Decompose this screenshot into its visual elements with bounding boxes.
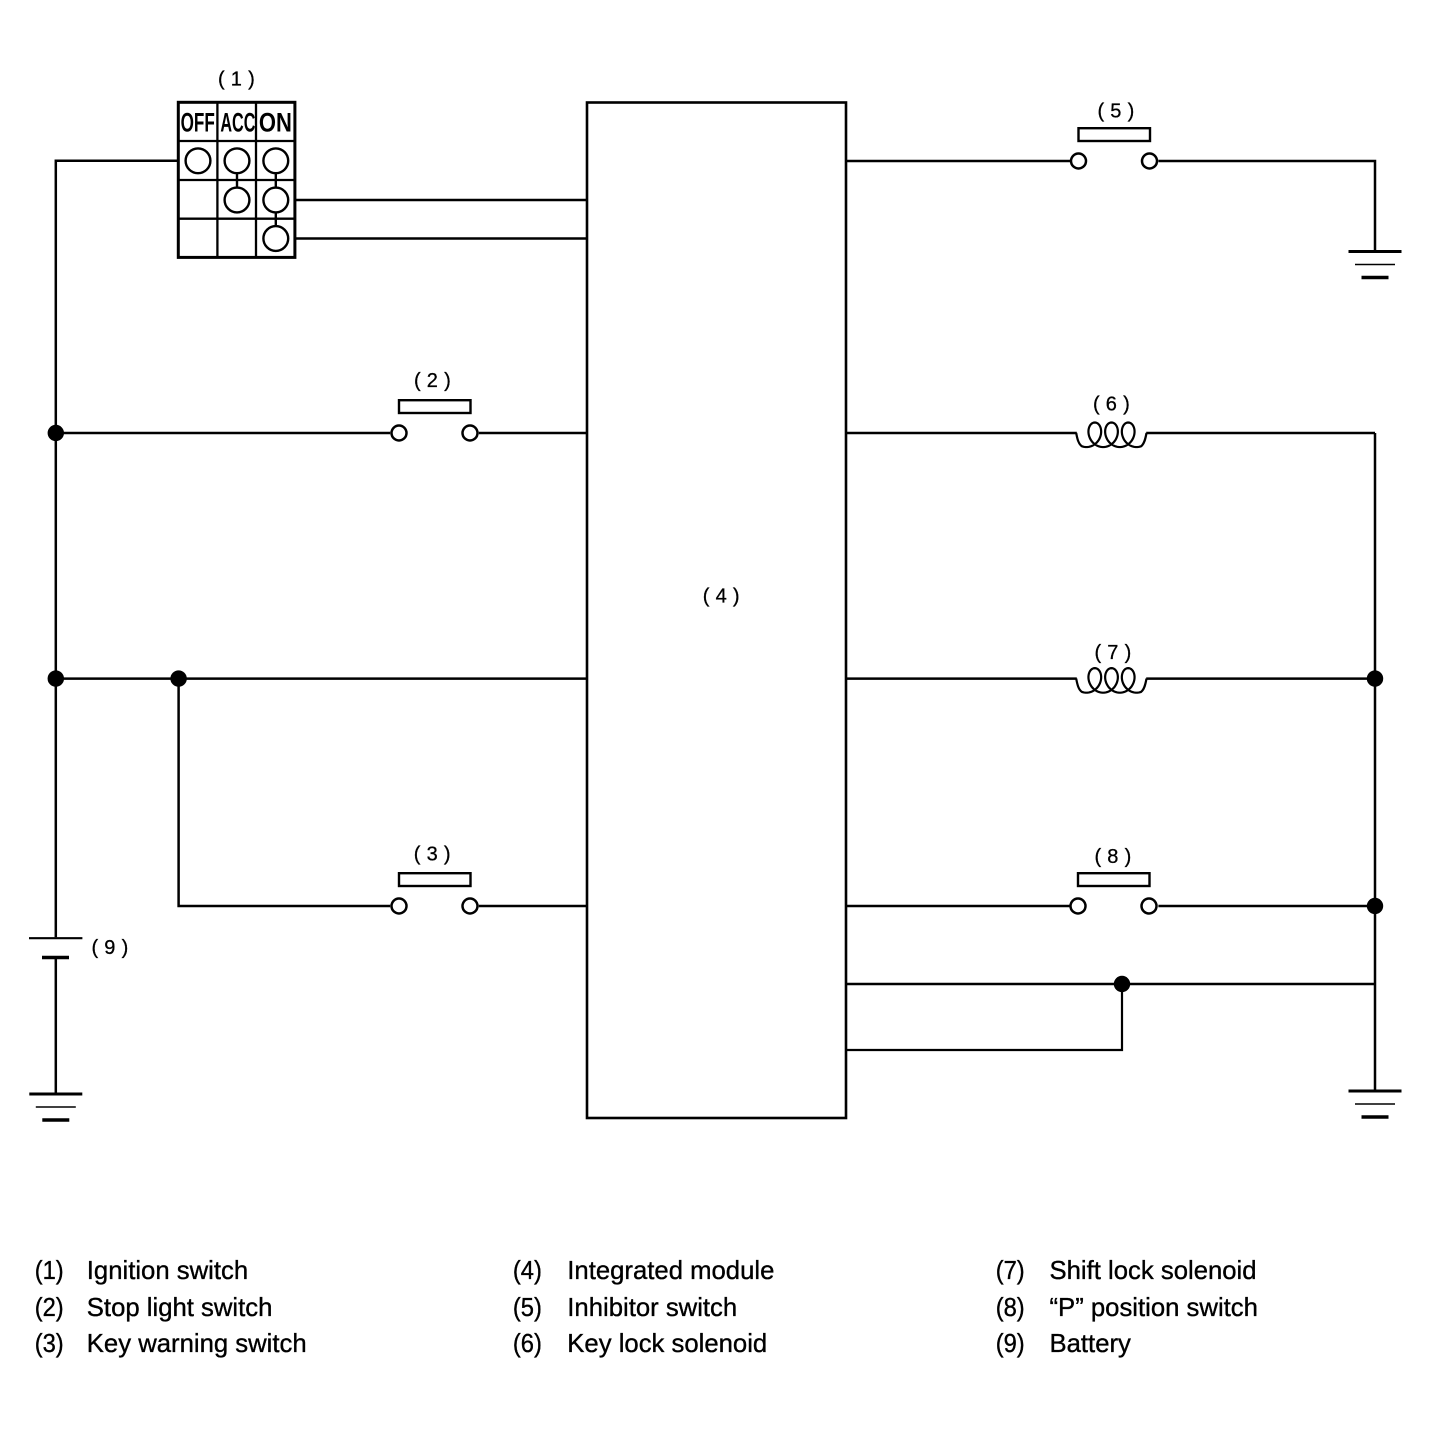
svg-text:( 3 ): ( 3 ) (414, 843, 451, 865)
svg-text:(7): (7) (996, 1257, 1025, 1285)
svg-text:Stop light switch: Stop light switch (87, 1294, 273, 1322)
svg-text:ACC: ACC (220, 108, 255, 138)
wire: ignition switch feed from battery bus (56, 161, 179, 938)
svg-text:( 9 ): ( 9 ) (91, 937, 128, 959)
"P" position switch (8) (1071, 873, 1157, 913)
svg-text:Integrated module: Integrated module (567, 1257, 774, 1285)
svg-text:(3): (3) (35, 1330, 64, 1358)
svg-text:(5): (5) (513, 1294, 542, 1322)
svg-text:( 7 ): ( 7 ) (1094, 642, 1131, 664)
svg-text:( 4 ): ( 4 ) (703, 586, 740, 608)
ground: battery (29, 1094, 82, 1120)
svg-text:(8): (8) (996, 1294, 1025, 1322)
wire: key lock solenoid to right bus (1146, 432, 1375, 435)
svg-text:Ignition switch: Ignition switch (87, 1257, 248, 1285)
svg-text:(6): (6) (513, 1330, 542, 1358)
wire: ignition ACC output to module (295, 199, 588, 202)
svg-text:ON: ON (259, 108, 292, 138)
ignition switch (1) contact table (178, 102, 295, 257)
svg-text:(9): (9) (996, 1330, 1025, 1358)
ground: bottom right (1349, 1091, 1402, 1117)
wire: module to inhibitor switch (846, 160, 1070, 163)
svg-text:(1): (1) (35, 1257, 64, 1285)
wire: stop light switch to module (479, 432, 589, 435)
svg-text:( 5 ): ( 5 ) (1097, 101, 1134, 123)
svg-text:Shift lock solenoid: Shift lock solenoid (1050, 1257, 1257, 1285)
junction: P switch / right bus (1367, 898, 1383, 914)
junction: sense / return (1114, 976, 1130, 992)
battery (9) negative plate (42, 956, 69, 960)
svg-text:( 6 ): ( 6 ) (1093, 394, 1130, 416)
shift lock solenoid (7) coil (1076, 668, 1146, 693)
wire: module to key lock solenoid (846, 432, 1077, 435)
legend column 1 (35, 1257, 1258, 1358)
svg-text:(4): (4) (513, 1257, 542, 1285)
svg-text:OFF: OFF (181, 108, 215, 138)
stop light switch (2) (392, 400, 478, 440)
key warning switch (3) (392, 873, 478, 913)
battery (9) positive plate (29, 937, 82, 939)
ground: top right (1349, 252, 1402, 278)
wire: key warning switch to module (479, 905, 589, 908)
junction: shift solenoid / right bus (1367, 670, 1383, 686)
svg-text:Battery: Battery (1050, 1330, 1132, 1358)
wire: inhibitor switch to ground (1158, 161, 1375, 251)
svg-text:( 1 ): ( 1 ) (218, 68, 255, 90)
inhibitor switch (5) (1071, 128, 1157, 168)
svg-text:Inhibitor switch: Inhibitor switch (567, 1294, 737, 1322)
integrated module (4) box (587, 103, 846, 1119)
junction: key warning branch (170, 670, 186, 686)
wire: module to shift lock solenoid (846, 677, 1077, 680)
svg-text:(2): (2) (35, 1294, 64, 1322)
svg-text:( 8 ): ( 8 ) (1094, 846, 1131, 868)
svg-text:( 2 ): ( 2 ) (414, 370, 451, 392)
svg-text:Key warning switch: Key warning switch (87, 1330, 307, 1358)
junction: battery bus / stop light (48, 425, 64, 441)
wire: shift lock solenoid to right bus (1146, 677, 1375, 680)
junction: battery bus / key warning (48, 670, 64, 686)
wire: ignition ON output to module (295, 237, 588, 240)
wire: key warning bus (56, 677, 589, 680)
wire: key warning branch (179, 679, 391, 906)
wire: stop light switch feed (56, 432, 390, 435)
wire: module sense line to right bus (846, 983, 1375, 986)
key lock solenoid (6) coil (1076, 423, 1146, 448)
wire: module to P position switch (846, 905, 1070, 908)
wire: module return line (846, 984, 1122, 1050)
svg-text:Key lock solenoid: Key lock solenoid (567, 1330, 767, 1358)
svg-text:“P” position switch: “P” position switch (1050, 1294, 1258, 1322)
wire: P position switch to right bus (1158, 905, 1375, 908)
wire: battery negative to ground (55, 958, 58, 1095)
wire: right ground bus (1374, 433, 1377, 1091)
